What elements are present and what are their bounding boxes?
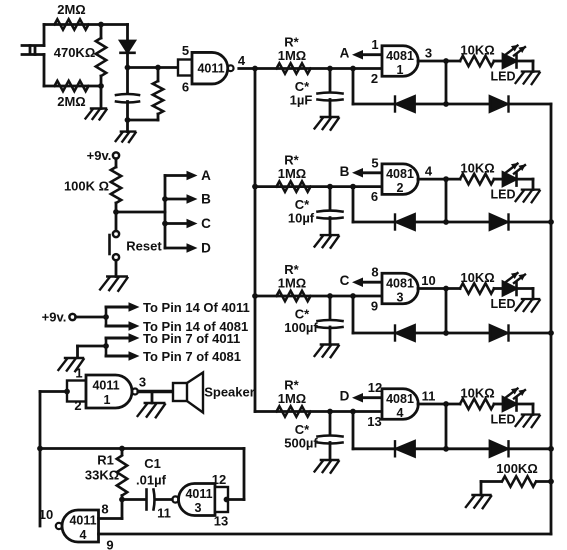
svg-text:8: 8: [101, 502, 108, 517]
svg-text:LED: LED: [491, 188, 516, 202]
svg-text:4011: 4011: [185, 487, 212, 501]
svg-text:1MΩ: 1MΩ: [278, 391, 306, 406]
svg-text:2MΩ: 2MΩ: [57, 94, 85, 109]
svg-text:To Pin 14 Of 4011: To Pin 14 Of 4011: [143, 300, 250, 315]
svg-text:10KΩ: 10KΩ: [460, 386, 494, 401]
svg-text:2: 2: [371, 71, 378, 86]
svg-text:4081: 4081: [386, 167, 414, 181]
svg-text:C: C: [340, 273, 350, 288]
svg-text:4: 4: [80, 528, 87, 542]
svg-text:13: 13: [367, 414, 381, 429]
svg-text:11: 11: [422, 389, 436, 404]
svg-text:100K Ω: 100K Ω: [64, 179, 109, 194]
svg-text:A: A: [201, 168, 211, 183]
svg-text:11: 11: [157, 506, 171, 521]
svg-text:C1: C1: [144, 456, 161, 471]
svg-text:4081: 4081: [386, 392, 414, 406]
svg-text:1: 1: [104, 393, 111, 407]
svg-text:3: 3: [425, 46, 432, 61]
svg-text:4: 4: [397, 406, 404, 420]
svg-text:100KΩ: 100KΩ: [496, 461, 538, 476]
svg-text:B: B: [340, 164, 350, 179]
svg-text:1: 1: [397, 63, 404, 77]
svg-text:3: 3: [139, 375, 146, 390]
svg-text:To Pin 7 of 4011: To Pin 7 of 4011: [143, 331, 240, 346]
svg-text:B: B: [201, 192, 211, 207]
svg-text:5: 5: [371, 155, 378, 170]
svg-text:9: 9: [371, 299, 378, 314]
svg-text:2: 2: [74, 398, 81, 413]
svg-text:9: 9: [106, 538, 113, 550]
svg-text:1MΩ: 1MΩ: [278, 48, 306, 63]
svg-text:D: D: [201, 241, 211, 256]
svg-text:3: 3: [397, 291, 404, 305]
svg-text:LED: LED: [491, 70, 516, 84]
svg-text:12: 12: [212, 472, 226, 487]
svg-text:470KΩ: 470KΩ: [54, 45, 96, 60]
svg-text:12: 12: [368, 380, 382, 395]
svg-text:R1: R1: [97, 453, 114, 468]
svg-text:10: 10: [39, 507, 53, 522]
svg-text:10KΩ: 10KΩ: [460, 161, 494, 176]
svg-text:10µf: 10µf: [288, 211, 315, 226]
svg-text:4011: 4011: [197, 62, 224, 76]
svg-text:10: 10: [421, 273, 435, 288]
svg-text:+9v.: +9v.: [87, 148, 112, 163]
svg-text:+9v.: +9v.: [42, 310, 67, 325]
svg-text:3: 3: [195, 501, 202, 515]
svg-text:13: 13: [214, 514, 228, 529]
svg-text:4081: 4081: [386, 277, 414, 291]
svg-text:500µf: 500µf: [284, 436, 318, 451]
svg-text:2MΩ: 2MΩ: [57, 2, 85, 17]
svg-text:6: 6: [371, 189, 378, 204]
svg-text:.01µf: .01µf: [136, 473, 167, 488]
svg-text:5: 5: [182, 43, 189, 58]
svg-text:C: C: [201, 216, 211, 231]
svg-text:10KΩ: 10KΩ: [460, 270, 494, 285]
svg-text:LED: LED: [491, 297, 516, 311]
svg-text:1: 1: [75, 366, 82, 381]
svg-text:4011: 4011: [92, 379, 119, 393]
svg-text:LED: LED: [491, 413, 516, 427]
svg-text:8: 8: [371, 265, 378, 280]
svg-text:100µf: 100µf: [284, 320, 318, 335]
svg-text:1MΩ: 1MΩ: [278, 166, 306, 181]
svg-text:Reset: Reset: [126, 239, 162, 254]
svg-text:2: 2: [397, 181, 404, 195]
svg-text:4081: 4081: [386, 49, 414, 63]
svg-text:A: A: [340, 46, 350, 61]
svg-text:Speaker: Speaker: [204, 385, 255, 400]
svg-text:33KΩ: 33KΩ: [85, 468, 119, 483]
svg-text:4011: 4011: [69, 514, 96, 528]
svg-text:6: 6: [182, 80, 189, 95]
svg-text:4: 4: [425, 164, 433, 179]
svg-text:1µF: 1µF: [290, 93, 313, 108]
svg-text:4: 4: [238, 53, 246, 68]
svg-text:1MΩ: 1MΩ: [278, 276, 306, 291]
svg-text:10KΩ: 10KΩ: [460, 43, 494, 58]
svg-text:D: D: [340, 389, 350, 404]
svg-text:To Pin 7 of 4081: To Pin 7 of 4081: [143, 349, 241, 364]
svg-text:1: 1: [371, 37, 378, 52]
